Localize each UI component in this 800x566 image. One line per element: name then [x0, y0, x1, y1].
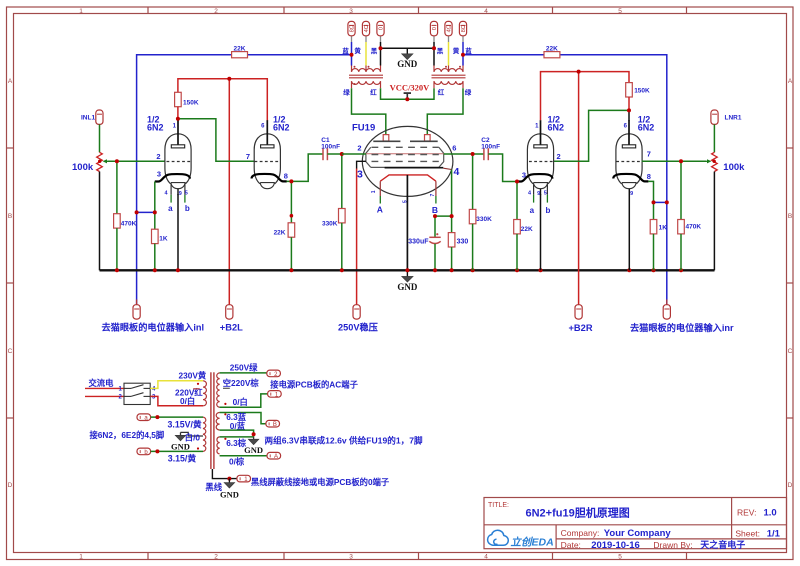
wire green 0white to terminal 1 — [220, 394, 268, 407]
svg-text:470K: 470K — [686, 224, 702, 231]
svg-text:22K: 22K — [546, 46, 558, 53]
svg-text:黑: 黑 — [437, 46, 444, 55]
svg-text:1/1: 1/1 — [767, 529, 781, 540]
svg-text:去猫眼板的电位器输入inr: 去猫眼板的电位器输入inr — [630, 322, 734, 333]
tube U4 half 6N2 (right follower triode) — [517, 120, 553, 202]
shield wire black — [212, 469, 237, 479]
svg-text:4: 4 — [484, 8, 488, 15]
wire black tube3 pin9 to bus — [540, 194, 542, 270]
svg-text:接6N2，6E2的4,5脚: 接6N2，6E2的4,5脚 — [90, 430, 165, 440]
svg-text:红: 红 — [438, 88, 445, 97]
wire green cathode1 / 1K riser — [154, 182, 156, 230]
wire red 250V to terminal — [356, 169, 358, 305]
svg-text:GND: GND — [397, 59, 418, 69]
wire black 0 link between transformers — [381, 47, 435, 49]
junction dots left channel — [176, 117, 180, 121]
label 1/2 6N2 tube4 — [638, 115, 655, 133]
terminal 0 right — [430, 21, 438, 42]
wire green plate1 to grid2 coupling — [178, 119, 255, 162]
wire green b to heater winding bottom — [151, 450, 203, 452]
svg-text:7: 7 — [647, 150, 651, 159]
wire green 6.3brown top lead — [220, 436, 254, 438]
svg-text:Your Company: Your Company — [604, 528, 672, 539]
svg-text:9: 9 — [179, 191, 182, 197]
svg-text:150K: 150K — [183, 100, 199, 107]
wire yellow 4ohm drop right — [448, 42, 450, 66]
svg-text:7: 7 — [430, 194, 436, 197]
svg-text:8: 8 — [284, 172, 288, 181]
resistor R 330K right (FU19 grid leak) — [469, 154, 492, 270]
junction dots bias network — [433, 214, 437, 218]
wire green a to heater winding top — [151, 416, 203, 418]
svg-text:5: 5 — [403, 200, 409, 203]
svg-text:B: B — [432, 205, 438, 215]
svg-text:B: B — [273, 422, 277, 428]
grid dash rows — [372, 147, 439, 161]
wire green cathode2 / 22K riser — [290, 181, 292, 222]
wire black tube1 pin9 to bus — [177, 194, 179, 270]
terminal A — [267, 452, 281, 460]
pin labels tube3 — [522, 124, 561, 198]
resistor R 470K right with leads — [678, 161, 702, 270]
wire yellow 4ohm drop left — [365, 42, 367, 66]
transformer T3 core — [210, 372, 212, 469]
capacitor C1 100nF — [321, 137, 342, 160]
wire green C2 to cathode3 — [488, 154, 517, 182]
svg-text:GND: GND — [220, 490, 239, 500]
svg-text:LNR1: LNR1 — [725, 115, 742, 122]
svg-text:绿: 绿 — [343, 88, 350, 97]
resistor R 470K left with leads — [114, 161, 137, 270]
heater leg pin7 — [435, 181, 437, 196]
svg-text:3: 3 — [349, 8, 353, 15]
svg-text:3: 3 — [349, 554, 353, 561]
terminal LNR1 — [711, 110, 742, 124]
svg-text:2: 2 — [557, 152, 561, 161]
svg-text:3: 3 — [357, 169, 363, 181]
svg-text:7: 7 — [246, 152, 250, 161]
switch pin numbers — [119, 386, 157, 400]
svg-text:a: a — [530, 206, 535, 215]
wire green stub net B — [435, 196, 437, 204]
beam plate bottom bar — [385, 167, 444, 169]
svg-text:B: B — [788, 213, 792, 220]
svg-text:C: C — [788, 348, 793, 355]
svg-text:2: 2 — [156, 152, 160, 161]
svg-text:2: 2 — [214, 8, 218, 15]
svg-text:5: 5 — [618, 8, 622, 15]
wire red 150K lower lead — [177, 107, 179, 119]
terminal inr (to cat-eye board) — [630, 300, 734, 334]
svg-text:+B2R: +B2R — [569, 323, 593, 333]
wire green grid line tube4 from pot — [642, 160, 706, 162]
svg-text:5: 5 — [618, 554, 622, 561]
resistor R 1K left — [152, 229, 168, 270]
tiny rotated pin numbers 1,5,7 — [371, 190, 436, 203]
svg-text:6N2: 6N2 — [147, 123, 164, 133]
svg-text:去猫眼板的电位器输入inl: 去猫眼板的电位器输入inl — [102, 321, 205, 332]
transformer T3 heater winding 3.15+3.15 — [203, 417, 206, 451]
wire green VCC link — [381, 88, 435, 99]
wire black 0 drop right — [433, 42, 435, 66]
ground bus (main) — [100, 269, 715, 271]
svg-text:GND: GND — [171, 441, 190, 451]
svg-text:6N2: 6N2 — [548, 123, 565, 133]
svg-text:0/棕: 0/棕 — [229, 457, 245, 467]
svg-text:黑线: 黑线 — [205, 482, 222, 492]
svg-text:22K: 22K — [521, 226, 533, 233]
svg-text:接电源PCB板的AC端子: 接电源PCB板的AC端子 — [270, 380, 358, 390]
svg-text:白/0: 白/0 — [185, 432, 201, 442]
wire blue feedback rail left — [137, 55, 352, 305]
svg-text:a: a — [168, 204, 173, 213]
svg-text:0: 0 — [378, 27, 384, 30]
svg-text:250V绿: 250V绿 — [230, 363, 258, 373]
wire black 0 drop left — [380, 42, 382, 66]
terminal 1 shield — [237, 475, 251, 483]
wire black tube4 pin9 to bus — [628, 189, 630, 270]
potentiometer 100k right — [705, 152, 745, 173]
resistor R 22K right cathode — [514, 182, 533, 271]
cathode center wire to ground bus — [406, 175, 408, 270]
polarity dot primary — [197, 383, 199, 385]
svg-text:黄: 黄 — [354, 46, 361, 55]
wire blue 8ohm drop left — [351, 42, 353, 66]
wire green pin2 (grid A) — [342, 153, 366, 155]
svg-text:3: 3 — [157, 170, 161, 179]
terminal inl (to cat-eye board) — [102, 300, 205, 333]
svg-text:绿: 绿 — [465, 88, 472, 97]
svg-text:9: 9 — [630, 191, 633, 197]
resistor R 22K right (feedback) — [544, 46, 560, 58]
transformer T3 primary winding (mains) — [203, 381, 206, 406]
svg-text:红: 红 — [370, 88, 377, 97]
svg-text:1.0: 1.0 — [764, 508, 777, 519]
terminal a — [137, 414, 151, 422]
pin labels tube4 — [624, 124, 651, 198]
svg-text:1: 1 — [79, 554, 83, 561]
resistor R 330K left (FU19 grid leak) — [322, 154, 345, 270]
svg-text:3.15/黄: 3.15/黄 — [168, 452, 197, 463]
svg-text:两组6.3V串联成12.6v 供给FU19的1，7脚: 两组6.3V串联成12.6v 供给FU19的1，7脚 — [265, 435, 423, 446]
terminal 250V regulator — [338, 305, 378, 333]
logo EasyEDA (LCEDA) — [488, 530, 554, 548]
transformer T3 6.3V brown winding — [217, 437, 220, 454]
wire green 0brown to terminal A — [220, 455, 267, 457]
resistor R 150K right — [626, 83, 650, 111]
wire yellow switch to 230V tap — [150, 381, 203, 389]
wire green T2 secondary to FU19 plate B — [427, 88, 463, 134]
wire green grid line tube1 — [108, 160, 166, 162]
wire green cathode4 / 1K riser — [648, 181, 653, 219]
label 1/2 6N2 tube2 — [273, 115, 290, 133]
wire green stub net A — [379, 196, 381, 204]
terminal 4ohm left — [362, 21, 370, 42]
svg-text:+B2L: +B2L — [220, 322, 243, 332]
svg-text:1: 1 — [371, 190, 377, 193]
svg-text:GND: GND — [397, 282, 418, 292]
terminal +B2L — [220, 305, 243, 333]
wire green plate4 to grid3 coupling — [553, 110, 629, 161]
svg-text:0: 0 — [432, 27, 438, 30]
svg-text:2: 2 — [214, 554, 218, 561]
svg-text:100nF: 100nF — [481, 144, 500, 151]
tube U5 half 6N2 (right input triode) — [613, 120, 648, 189]
grid internal red conductor — [366, 153, 444, 155]
plate cap A — [383, 135, 389, 141]
wire blue stub to cathode left — [137, 211, 155, 213]
svg-text:A: A — [274, 454, 278, 460]
svg-text:VCC/320V: VCC/320V — [390, 82, 431, 92]
svg-text:天之音电子: 天之音电子 — [700, 539, 745, 550]
transformer T3 HV secondary winding — [217, 373, 220, 407]
svg-text:INL1: INL1 — [81, 115, 95, 122]
svg-text:B: B — [8, 213, 12, 220]
svg-text:4Ω: 4Ω — [364, 24, 370, 32]
terminal +B2R — [569, 305, 593, 333]
svg-text:2: 2 — [357, 144, 361, 153]
svg-text:Drawn By:: Drawn By: — [653, 540, 692, 550]
pin 3 connection (g2) — [357, 161, 366, 168]
wire green 0blue to junction — [220, 430, 254, 437]
svg-text:250V稳压: 250V稳压 — [338, 321, 378, 332]
switch S1 (dual pole) — [124, 383, 150, 404]
tube U1 half 6N2 (left input triode) — [155, 120, 191, 202]
transformer T2 (right output) — [432, 66, 466, 89]
svg-text:100nF: 100nF — [321, 144, 340, 151]
tube U3 FU19 envelope — [362, 126, 453, 196]
resistor R 22K left (feedback) — [232, 46, 248, 58]
junction dots right channel — [471, 152, 475, 156]
wire green 250V to terminal 2 — [220, 372, 267, 374]
terminal B — [266, 420, 280, 428]
svg-text:蓝: 蓝 — [465, 46, 472, 55]
svg-text:6N2+fu19胆机原理图: 6N2+fu19胆机原理图 — [526, 506, 630, 520]
svg-text:6N2: 6N2 — [273, 123, 290, 133]
svg-text:330uF: 330uF — [408, 239, 429, 246]
wire green cathode2 to C1 — [287, 154, 324, 181]
svg-text:5: 5 — [544, 190, 547, 196]
svg-text:A: A — [8, 78, 13, 85]
svg-text:2019-10-16: 2019-10-16 — [591, 540, 640, 551]
terminal 0 left — [377, 21, 385, 42]
svg-text:Sheet:: Sheet: — [735, 529, 760, 539]
svg-text:TITLE:: TITLE: — [488, 502, 509, 509]
junction dots a/b terminals — [155, 415, 159, 419]
svg-text:A: A — [377, 205, 383, 215]
junction dot heater series — [252, 432, 256, 436]
svg-text:3: 3 — [522, 170, 526, 179]
wire green bias tee — [435, 215, 452, 217]
svg-text:150K: 150K — [634, 87, 650, 94]
svg-text:C: C — [8, 348, 13, 355]
ground (speaker common) — [397, 48, 418, 69]
terminal 2 — [267, 370, 281, 378]
power flag VCC/320V — [390, 82, 431, 100]
wire blue 8ohm drop right — [462, 42, 464, 66]
potentiometer 100k left — [72, 152, 109, 173]
svg-text:8Ω: 8Ω — [461, 24, 467, 32]
svg-text:D: D — [8, 482, 13, 489]
svg-text:330K: 330K — [476, 216, 492, 223]
junction dot shield — [227, 477, 231, 481]
resistor R 330 — [448, 233, 468, 271]
junction dots on bus — [115, 268, 683, 272]
svg-text:100k: 100k — [72, 162, 94, 173]
svg-text:空220V棕: 空220V棕 — [223, 378, 260, 388]
wire red B+ rail left — [178, 79, 267, 121]
svg-text:330K: 330K — [322, 220, 338, 227]
ground symbol at bus — [397, 270, 418, 292]
svg-text:1: 1 — [79, 8, 83, 15]
svg-text:立创EDA: 立创EDA — [511, 535, 554, 548]
wire green 6.3blue to terminal B — [220, 413, 266, 424]
svg-text:8: 8 — [647, 172, 651, 181]
svg-text:REV:: REV: — [737, 508, 757, 518]
cage bottom line — [371, 166, 439, 168]
terminal 8ohm right — [459, 21, 467, 42]
220V tap stub — [193, 388, 200, 390]
svg-text:1K: 1K — [159, 235, 168, 242]
svg-text:A: A — [788, 78, 793, 85]
heater leg pin1 — [379, 181, 381, 196]
wire green pin6 (grid B) — [444, 153, 473, 155]
wire green LNR1 to pot — [713, 124, 715, 152]
svg-text:4: 4 — [454, 166, 460, 178]
svg-text:1K: 1K — [659, 225, 668, 232]
svg-text:6: 6 — [452, 144, 456, 153]
svg-text:0/蓝: 0/蓝 — [230, 421, 246, 431]
svg-text:3.15V/黄: 3.15V/黄 — [168, 419, 202, 430]
svg-text:Date:: Date: — [561, 540, 581, 550]
ground at heater series junction — [244, 437, 263, 455]
svg-text:470K: 470K — [121, 220, 137, 227]
wire color labels (blue text) — [342, 46, 472, 97]
wire green pin4 drop to 330 network — [451, 170, 453, 233]
svg-text:100k: 100k — [723, 162, 745, 173]
heater filament — [380, 175, 436, 181]
plate bar B — [410, 140, 438, 142]
svg-text:黄: 黄 — [453, 46, 460, 55]
ground shield — [220, 479, 239, 500]
junction dots top section — [350, 53, 354, 57]
wire green net B drop to bias network — [434, 216, 436, 237]
svg-text:230V黄: 230V黄 — [179, 371, 207, 381]
capacitor 330uF (polarized) — [408, 233, 440, 270]
terminal b — [137, 448, 151, 456]
terminal 1 — [268, 391, 282, 399]
pin 4 link (right g2 tie) — [443, 168, 451, 169]
terminal 8ohm left — [348, 21, 356, 42]
svg-text:b: b — [546, 206, 551, 215]
wire red B+ rail right — [541, 72, 630, 121]
svg-text:22K: 22K — [234, 46, 246, 53]
svg-text:黑: 黑 — [371, 46, 378, 55]
svg-text:4: 4 — [484, 554, 488, 561]
svg-text:9: 9 — [537, 191, 540, 197]
svg-text:GND: GND — [244, 445, 263, 455]
terminal 4ohm right — [445, 21, 453, 42]
big pin labels 2,6,3,4 — [357, 144, 460, 181]
wire green T1 secondary to FU19 plate A — [352, 88, 386, 134]
heater winding center tap to GND — [181, 432, 204, 436]
svg-text:D: D — [788, 482, 793, 489]
svg-text:4Ω: 4Ω — [446, 24, 452, 32]
wire black pot bottom to ground bus — [99, 172, 101, 271]
svg-text:b: b — [185, 204, 190, 213]
svg-text:0/白: 0/白 — [233, 397, 248, 407]
svg-text:交流电: 交流电 — [89, 378, 115, 388]
wire black right pot bottom to ground bus — [713, 172, 715, 271]
wire blue stub to cathode right — [654, 201, 667, 203]
svg-text:Company:: Company: — [561, 528, 600, 538]
grid cage octagon sides — [366, 147, 444, 167]
pin labels tube2 — [246, 124, 288, 181]
wire blue feedback rail right — [463, 55, 667, 305]
pin labels tube1 — [156, 124, 188, 198]
svg-text:22K: 22K — [274, 229, 286, 236]
transformer T1 (left output) — [349, 66, 383, 89]
unused 220V tap stub — [223, 387, 230, 389]
svg-text:FU19: FU19 — [352, 123, 375, 134]
svg-text:0/白: 0/白 — [180, 396, 195, 406]
resistor R 1K right — [650, 220, 667, 271]
svg-text:5: 5 — [185, 190, 188, 196]
wire red +B2R riser — [578, 72, 580, 305]
label 1/2 6N2 tube1 — [147, 115, 164, 133]
plate bar A — [373, 140, 400, 142]
wire red mains line 2 — [85, 395, 124, 397]
wire red mains line 1 — [85, 387, 124, 389]
wire red +B2L riser — [228, 79, 230, 305]
svg-text:8Ω: 8Ω — [349, 24, 355, 32]
tube U2 half 6N2 (left follower triode) — [252, 120, 287, 189]
svg-text:6.3棕: 6.3棕 — [226, 438, 247, 448]
svg-text:黑线屏蔽线接地或电源PCB板的0端子: 黑线屏蔽线接地或电源PCB板的0端子 — [251, 477, 390, 487]
resistor R 150K left — [175, 92, 199, 106]
wire red switch to 0 tap — [150, 396, 203, 405]
svg-text:6N2: 6N2 — [638, 123, 655, 133]
svg-text:330: 330 — [457, 239, 469, 246]
resistor R 22K left cathode — [274, 223, 295, 270]
label 1/2 6N2 tube3 — [548, 115, 565, 133]
capacitor C2 100nF — [473, 137, 501, 160]
wire green INL1 to pot — [99, 124, 101, 152]
transformer T3 6.3V blue winding — [216, 413, 219, 430]
plate cap B — [425, 135, 431, 141]
svg-text:蓝: 蓝 — [342, 46, 349, 55]
terminal INL1 — [81, 110, 103, 124]
